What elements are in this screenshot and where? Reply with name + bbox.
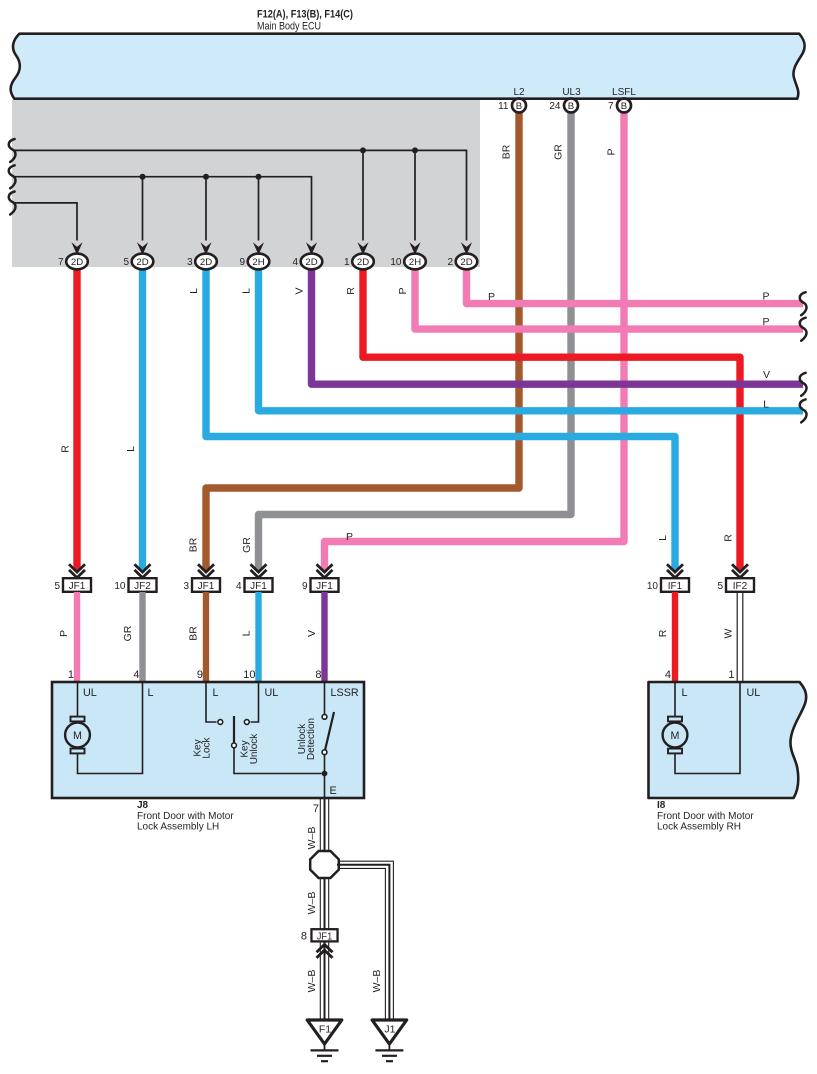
svg-text:W–B: W–B [306,970,318,993]
wire R from 2D-1 to IF2-5 [363,268,740,570]
J8 caption [137,800,234,833]
horizontal wire labels [346,291,770,543]
svg-text:W–B: W–B [306,892,318,915]
ECU internal bus wire C [13,203,77,241]
svg-text:2D: 2D [460,257,472,268]
svg-text:8: 8 [315,669,321,681]
connector 2D pin 3 [187,254,217,270]
node E label [330,785,337,797]
svg-text:JF1: JF1 [317,930,333,942]
svg-text:UL: UL [265,687,279,699]
svg-text:5: 5 [123,257,129,268]
svg-text:Main Body ECU: Main Body ECU [257,21,321,33]
svg-text:GR: GR [122,625,134,641]
wire L from 2D-3 to IF1-10 [206,268,675,570]
connector B pin 24 (UL3) [549,99,578,113]
connector 2D pin 5 [123,254,153,270]
break symbol bus B [9,165,16,188]
svg-text:2H: 2H [252,257,264,268]
svg-text:UL: UL [747,687,761,699]
svg-text:P: P [606,148,618,155]
pin 7 label below J8 [313,803,319,815]
svg-text:Unlock: Unlock [249,733,260,765]
svg-text:J8: J8 [137,800,149,811]
svg-text:JF1: JF1 [250,581,267,592]
junction JF1 pin 3 [183,564,220,592]
svg-text:2D: 2D [136,257,148,268]
I8 terminal labels [682,687,761,699]
node labels L2 UL3 LSFL [513,87,636,98]
svg-text:P: P [763,291,770,303]
svg-text:IF2: IF2 [733,581,748,592]
junction JF1 pin 8 [301,929,338,942]
junction IF2 pin 5 [717,564,754,592]
svg-text:JF1: JF1 [69,581,86,592]
svg-text:2D: 2D [71,257,83,268]
svg-text:B: B [621,101,627,112]
break symbol bus A [9,139,16,162]
wire W-B branch from noise filter to ground J1 [337,861,393,1020]
svg-text:8: 8 [301,931,307,943]
svg-text:L: L [682,687,688,699]
svg-text:7: 7 [313,803,319,815]
svg-text:3: 3 [187,257,193,268]
svg-text:LSSR: LSSR [331,687,359,699]
svg-text:JF1: JF1 [316,581,333,592]
wire W-B from J8 pin7 to noise filter [320,798,328,851]
svg-text:P: P [58,630,70,637]
svg-text:4: 4 [665,669,671,681]
svg-text:UL3: UL3 [562,87,581,98]
ground J1 [372,1020,407,1061]
svg-text:Lock: Lock [202,736,213,758]
junction JF1 pin 9 [302,564,339,592]
svg-text:JF1: JF1 [198,581,215,592]
svg-text:2D: 2D [200,257,212,268]
svg-text:V: V [294,287,306,294]
connector B pin 11 (L2) [498,99,526,113]
unlock detection switch [322,683,334,797]
svg-text:I8: I8 [657,800,666,811]
wire V from JF1-9 to J8 pin8 [321,592,327,682]
svg-text:P: P [397,287,409,294]
connector 2D pin 1 [344,254,374,270]
W-B labels [306,827,383,993]
svg-text:2D: 2D [357,257,369,268]
svg-text:L: L [188,288,200,294]
wire R from 2D-7 to JF1-5 [73,268,80,570]
svg-text:9: 9 [239,257,245,268]
svg-text:4: 4 [133,669,139,681]
svg-text:4: 4 [292,257,298,268]
svg-text:R: R [345,287,357,295]
noise filter octagon [310,851,339,878]
wire GR from ECU UL3 to JF1-4 [259,113,572,570]
svg-text:7: 7 [608,101,614,112]
wire BR from ECU L2 to JF1-3 [206,113,519,570]
internal ECU shading block [12,100,480,267]
svg-text:GR: GR [241,537,253,553]
svg-text:1: 1 [68,669,74,681]
break symbol wire P lower [800,318,807,341]
svg-text:4: 4 [236,581,242,592]
svg-text:V: V [763,369,770,381]
break symbol wire V [800,373,807,396]
svg-text:L: L [241,288,253,294]
svg-text:L: L [763,398,769,410]
svg-text:9: 9 [197,669,203,681]
wire BR from JF1-3 to J8 pin9 [203,592,209,682]
svg-text:5: 5 [717,581,723,592]
wire L from 2H-9 to right edge [259,268,804,411]
svg-text:1: 1 [344,257,350,268]
svg-text:2: 2 [447,257,453,268]
svg-text:F1: F1 [319,1024,331,1036]
svg-text:L2: L2 [513,87,525,98]
svg-text:UL: UL [83,687,97,699]
ECU title [257,9,353,33]
svg-text:M: M [671,730,680,742]
wire L from 2D-5 to JF2-10 [139,268,146,570]
svg-text:10: 10 [390,257,402,268]
svg-text:V: V [306,630,318,637]
wire color labels upper section [60,144,735,553]
component I8 Front Door with Motor Lock Assembly RH [649,682,807,798]
junction IF1 pin 10 [647,564,689,592]
svg-text:E: E [330,785,337,797]
svg-text:24: 24 [549,101,561,112]
ECU internal bus wire B [13,174,312,241]
svg-text:W–B: W–B [306,827,318,850]
connector 2D pin 7 [58,254,88,270]
svg-text:10: 10 [243,669,255,681]
ground F1 [307,1020,342,1061]
wire V from 2D-4 to right edge [312,268,804,384]
arrowheads onto ECU pins [71,242,472,255]
switch labels Key Lock / Key Unlock [192,733,260,765]
I8 caption [657,800,754,833]
connector 2D pin 2 [447,254,477,270]
svg-text:P: P [488,291,495,303]
svg-text:B: B [516,101,522,112]
svg-text:IF1: IF1 [668,581,683,592]
svg-text:L: L [148,687,154,699]
svg-text:F12(A), F13(B), F14(C): F12(A), F13(B), F14(C) [257,9,353,21]
connector 2H pin 9 [239,254,269,270]
junction JF1 pin 4 [236,564,273,592]
svg-text:L: L [657,535,669,541]
svg-text:Front Door with Motor: Front Door with Motor [657,811,754,822]
svg-text:JF2: JF2 [134,581,151,592]
svg-text:10: 10 [114,581,126,592]
lower wire color labels [58,625,735,641]
svg-text:10: 10 [647,581,659,592]
svg-text:BR: BR [188,626,200,641]
svg-text:11: 11 [498,101,509,112]
svg-text:L: L [241,630,253,636]
motor M in J8 [65,717,90,754]
svg-text:BR: BR [501,144,513,159]
pin number labels above J8/I8 [68,669,735,681]
svg-text:W–B: W–B [371,970,383,993]
wire W-B from JF1-8 to ground F1 [320,942,328,1020]
connector 2H pin 10 [390,254,425,270]
J8 terminal labels [83,687,359,699]
svg-text:Detection: Detection [306,718,317,760]
break symbol wire L [800,399,807,422]
junction JF2 pin 10 [114,564,156,592]
svg-text:2H: 2H [409,257,421,268]
junction JF1 pin 5 [54,564,91,592]
chevron up below JF1-8 [317,945,333,958]
key lock switch contact [206,683,223,724]
svg-text:P: P [346,531,353,543]
svg-text:BR: BR [188,537,200,552]
unlock detection label [297,718,317,760]
svg-text:R: R [657,629,669,637]
wire W-B from noise filter to JF1-8 [320,878,328,929]
svg-text:Front Door with Motor: Front Door with Motor [137,811,234,822]
connector 2D pin 4 [292,254,322,270]
component J8 Front Door with Motor Lock Assembly LH [52,682,364,798]
wire P from 2H-10 to right edge [415,268,803,329]
svg-text:GR: GR [553,144,565,160]
svg-text:L: L [125,446,137,452]
wire R from IF1-10 to I8 pin4 [672,592,678,682]
motor M in I8 [663,717,688,754]
svg-text:3: 3 [183,581,189,592]
svg-text:LSFL: LSFL [612,87,636,98]
wire W from IF2-5 to I8 pin1 [737,592,743,682]
svg-text:2D: 2D [305,257,317,268]
svg-text:J1: J1 [384,1024,395,1036]
svg-text:P: P [763,316,770,328]
svg-text:1: 1 [728,669,734,681]
key switch blade [232,716,322,774]
svg-text:M: M [73,730,82,742]
key unlock switch contact [244,683,258,724]
wire P from 2D-2 to right edge [467,268,804,304]
break symbol bus C [9,192,16,215]
wire L from JF1-4 to J8 pin10 [255,592,261,682]
svg-text:R: R [60,445,72,453]
svg-text:R: R [723,534,735,542]
Main Body ECU band [11,34,805,99]
I8 motor wiring [675,683,740,774]
J8 motor wiring [78,683,143,774]
svg-text:W: W [723,628,735,638]
svg-text:9: 9 [302,581,308,592]
svg-text:5: 5 [54,581,60,592]
svg-text:B: B [568,101,574,112]
svg-text:7: 7 [58,257,64,268]
ECU internal bus wire A [13,147,467,240]
svg-text:Lock Assembly RH: Lock Assembly RH [657,822,741,833]
svg-text:L: L [213,687,219,699]
wire GR from JF2-10 to J8 pin4 [139,592,145,682]
svg-text:Lock Assembly LH: Lock Assembly LH [137,822,219,833]
wire P from ECU LSFL to JF1-9 [325,113,625,570]
connector B pin 7 (LSFL) [608,99,631,113]
wire P from JF1-5 to J8 pin1 [74,592,80,682]
break symbol wire P upper [800,292,807,315]
